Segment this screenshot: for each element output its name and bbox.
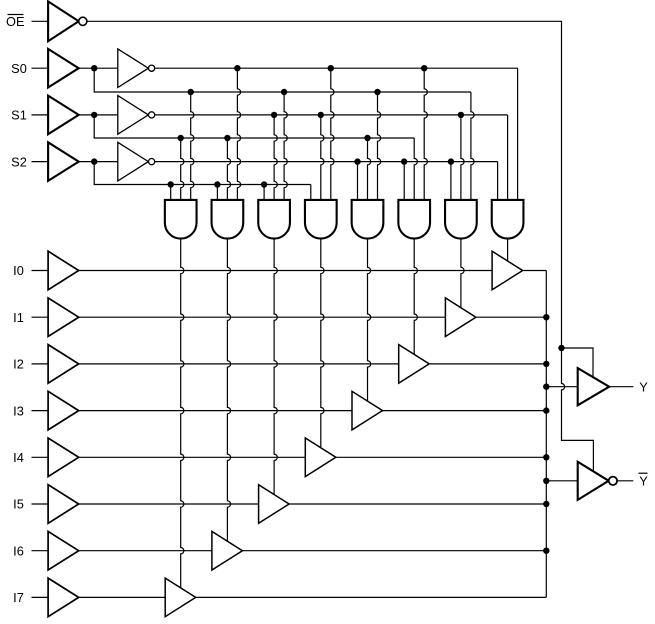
- svg-text:Y: Y: [639, 474, 648, 489]
- svg-text:I1: I1: [13, 310, 24, 325]
- svg-text:I5: I5: [13, 497, 24, 512]
- svg-text:I2: I2: [13, 357, 24, 372]
- svg-text:S2: S2: [11, 154, 27, 169]
- svg-text:S1: S1: [11, 108, 27, 123]
- svg-text:I0: I0: [13, 263, 24, 278]
- svg-text:I6: I6: [13, 543, 24, 558]
- svg-text:S0: S0: [11, 61, 27, 76]
- svg-text:OE: OE: [6, 14, 25, 29]
- svg-text:I3: I3: [13, 403, 24, 418]
- svg-text:Y: Y: [639, 379, 648, 394]
- svg-text:I7: I7: [13, 590, 24, 605]
- svg-text:I4: I4: [13, 450, 24, 465]
